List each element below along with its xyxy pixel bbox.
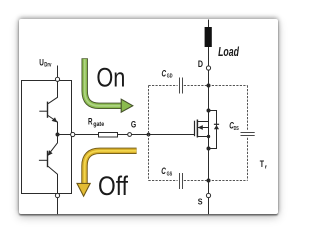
svg-text:r: r [265,165,268,171]
wire: resistor to G [118,134,128,136]
dashed parasitic box: top edge [149,85,248,87]
label R_gate [88,116,105,127]
wire: U_Drv stub [57,66,59,78]
node: gate/dashed-box junction [147,133,151,137]
node: source lead junction [207,135,210,138]
terminal D [206,66,210,70]
node: driver output junction [56,133,60,137]
driver box U_Drv [22,81,72,194]
node: body-diode top [207,109,211,113]
node: drain crosses dashed top [207,84,211,88]
svg-text:G: G [131,120,136,130]
load (filled) [205,27,212,47]
yellow Off arrow [77,151,137,196]
wire: D to drain [208,70,210,110]
transistor Q2 (PNP, lower) [39,137,58,194]
svg-text:T: T [260,159,265,169]
svg-text:GS: GS [167,172,173,178]
dashed parasitic box: left edge [148,86,150,181]
label Load [218,44,240,59]
label C_GD [162,68,173,79]
wire: source down [208,149,210,194]
terminal G [128,133,132,137]
svg-text:DS: DS [234,126,240,132]
label C_GS [161,166,172,177]
svg-text:Load: Load [218,44,240,59]
green On arrow [85,58,133,112]
resistor R_gate [99,133,118,138]
svg-text:On: On [96,63,125,93]
capacitor C_GD [180,78,183,94]
svg-text:gate: gate [93,121,104,128]
wire: driver bottom stub [57,198,59,215]
svg-text:GD: GD [167,74,173,80]
label C_DS [229,121,239,133]
svg-text:Off: Off [98,171,128,201]
svg-text:C: C [161,166,166,176]
label Off [98,171,128,201]
capacitor C_GS [180,173,183,189]
svg-text:D: D [198,59,203,69]
terminal: driver bottom [55,193,59,197]
wire: top rail to load [208,20,210,28]
label G [131,120,136,130]
transistor Q1 (NPN, upper) [39,81,57,133]
label S [198,197,203,206]
wire: load to D terminal [208,47,210,66]
svg-text:R: R [88,116,93,126]
terminal: driver output [71,132,75,136]
label T_r [260,159,268,171]
label U_Drv [39,57,52,68]
label D [198,59,203,69]
terminal S [206,193,210,197]
svg-text:S: S [198,197,203,206]
node: source crosses dashed bottom [207,179,211,183]
wire: S to bottom rail [208,198,210,215]
wire: gate wire left [75,134,99,136]
terminal: driver top [55,77,59,81]
label On [96,63,125,93]
node: body-diode bottom [207,147,211,151]
wire: driver output to box edge [58,134,71,136]
wire: G to gate [132,134,195,136]
capacitor C_DS [241,133,255,136]
svg-text:Drv: Drv [44,63,52,69]
dashed parasitic box: right edge [247,86,249,181]
wire: mosfet vertical channel line [208,111,210,149]
MOSFET T_r [195,120,209,138]
svg-text:C: C [162,68,167,78]
body diode branch [209,111,220,149]
dashed parasitic box: bottom edge [149,180,248,182]
card frame [19,19,278,214]
